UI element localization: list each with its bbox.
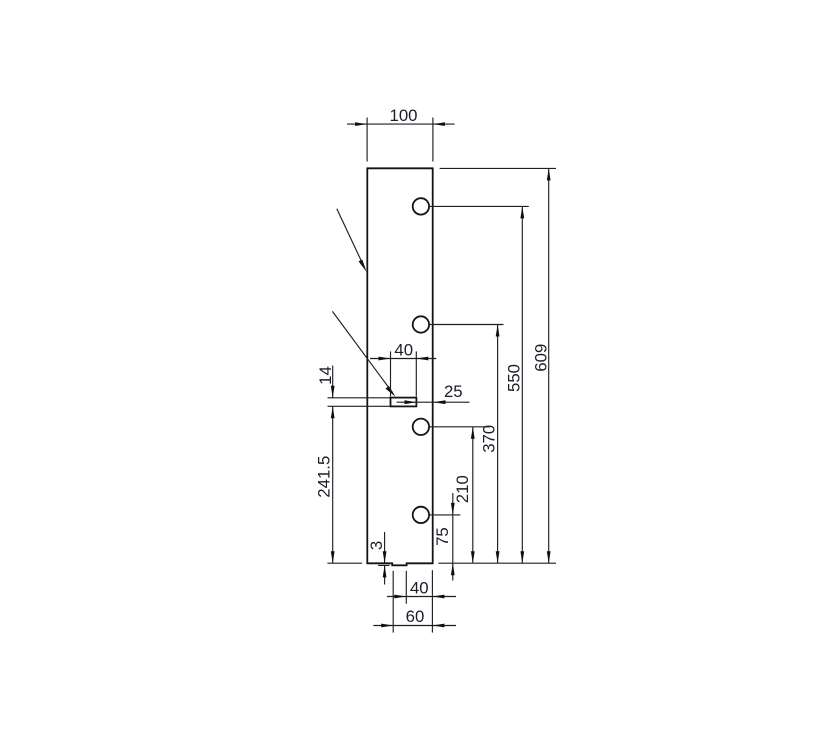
dimension 370 (hole H2 height) [429, 325, 503, 564]
bottom datum extension line [438, 562, 556, 564]
svg-text:609: 609 [531, 344, 550, 372]
dimension 40 (slot width) [370, 341, 436, 397]
svg-text:550: 550 [505, 364, 524, 392]
svg-text:14: 14 [316, 366, 335, 385]
svg-text:241.5: 241.5 [315, 456, 334, 498]
dimension 40 (tab to right edge, bottom) [387, 571, 456, 604]
dimension 25 (slot to right edge) [397, 382, 470, 404]
hole H2 [413, 316, 429, 332]
dimension 100 (top width) [347, 106, 455, 162]
dimension 75 (hole H4 height) [429, 493, 460, 581]
svg-text:370: 370 [479, 425, 498, 453]
slot (40x14 cutout) [391, 398, 417, 407]
leader arrow to plate edge [337, 209, 367, 272]
dimension 60 (tab to right edge, bottom) [373, 570, 456, 632]
svg-text:60: 60 [406, 607, 425, 626]
svg-text:75: 75 [433, 527, 452, 546]
dimension 3 (bottom tab depth) [367, 532, 389, 585]
plate outline [367, 168, 432, 565]
svg-text:100: 100 [390, 106, 418, 125]
svg-text:40: 40 [394, 341, 413, 360]
dimension 550 (hole H1 height) [429, 206, 529, 563]
svg-text:40: 40 [410, 578, 429, 597]
hole H3 [413, 419, 429, 435]
hole H4 [413, 507, 429, 523]
svg-text:210: 210 [453, 475, 472, 503]
svg-text:25: 25 [444, 382, 463, 401]
dimension 14 (slot height) [316, 366, 390, 407]
svg-text:3: 3 [367, 541, 386, 550]
leader arrow to slot [332, 311, 395, 396]
hole H1 [413, 198, 429, 214]
dimension 210 (hole H3 height) [429, 427, 490, 563]
dimension 609 (overall height) [440, 168, 556, 563]
dimension 241.5 (slot bottom to plate bottom) [315, 406, 363, 563]
